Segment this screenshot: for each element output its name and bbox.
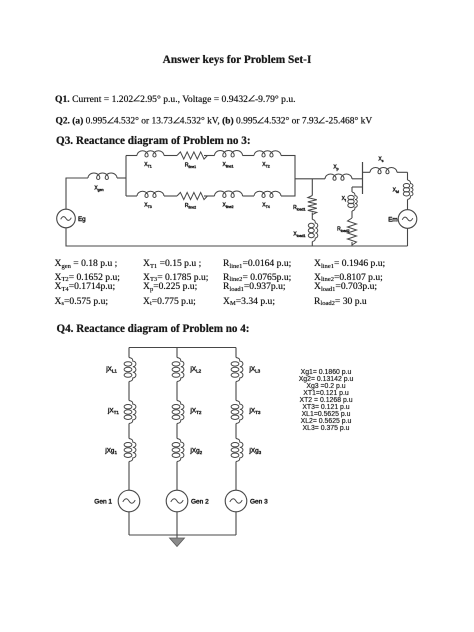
Q2 answer line bbox=[56, 116, 373, 127]
inductor jXT1 bbox=[107, 401, 136, 424]
Q4 reactance values list bbox=[266, 369, 386, 432]
ground stub wire bbox=[176, 535, 178, 539]
wire jXL2 to jXT2 bbox=[176, 382, 178, 401]
svg-text:jXg2: jXg2 bbox=[190, 448, 203, 455]
AC source Gen 1 bbox=[94, 490, 140, 512]
wire jXL1 to jXT1 bbox=[128, 382, 130, 401]
svg-text:jXT1: jXT1 bbox=[107, 408, 119, 415]
svg-text:jXL1: jXL1 bbox=[105, 366, 117, 373]
inductor XM bbox=[393, 180, 413, 200]
wire Xgen to split junction bbox=[117, 177, 126, 179]
inductor XT2 bbox=[254, 151, 281, 169]
svg-text:Gen 1: Gen 1 bbox=[94, 499, 112, 506]
inductor Xp bbox=[325, 165, 352, 181]
svg-text:jXg1: jXg1 bbox=[104, 448, 117, 455]
AC source Gen 2 bbox=[166, 490, 209, 512]
resistor Rload1 bbox=[293, 196, 317, 215]
resistor Rload2 bbox=[337, 218, 356, 245]
inductor Xload1 bbox=[293, 219, 317, 241]
ground symbol bbox=[170, 538, 185, 547]
inductor jXg3 bbox=[231, 439, 262, 462]
resistor Rline1 bbox=[177, 152, 207, 169]
wire Rline2 to Xline2 bbox=[204, 195, 215, 197]
AC source Gen 3 bbox=[225, 490, 268, 512]
wire Gen 2 to bottom bus bbox=[176, 512, 178, 535]
wire jXg1 to Gen 1 bbox=[128, 462, 130, 491]
wire XT4 to right junction bbox=[281, 195, 296, 197]
Q3 values row 4 bbox=[55, 296, 109, 307]
AC source Em bbox=[388, 210, 417, 229]
wire Xs to corner bbox=[397, 171, 408, 173]
wire jXT1 to jXg1 bbox=[128, 424, 130, 439]
svg-text:Gen 2: Gen 2 bbox=[191, 499, 209, 506]
inductor Xt bbox=[342, 192, 358, 211]
Q3 heading bbox=[56, 135, 251, 147]
wire Xload1 to bottom rail bbox=[311, 242, 313, 246]
wire Xline2 to XT4 bbox=[243, 195, 255, 197]
wire Eg to bottom rail bbox=[65, 228, 67, 247]
inductor jXT2 bbox=[172, 401, 202, 424]
inductor jXg2 bbox=[172, 439, 203, 462]
wire Xt to Rload2 bbox=[351, 211, 353, 218]
bus bar node bbox=[362, 162, 364, 194]
wire jXL3 to jXT3 bbox=[235, 382, 237, 401]
wire Rload1 to Xload1 bbox=[311, 213, 313, 220]
wire bus to jXL1 bbox=[128, 348, 130, 358]
wire jXg3 to Gen 3 bbox=[235, 462, 237, 491]
svg-text:Gen 3: Gen 3 bbox=[250, 499, 268, 506]
resistor Rline2 bbox=[177, 192, 207, 209]
Q3 values row 3 bbox=[55, 281, 116, 292]
wire corner down to XM bbox=[407, 172, 409, 180]
wire Em to bottom rail bbox=[407, 228, 409, 246]
wire bus to jXL2 bbox=[176, 348, 178, 358]
wire Rline1 to Xline1 bbox=[204, 155, 215, 157]
AC source Eg bbox=[57, 209, 86, 228]
inductor Xs bbox=[370, 157, 397, 174]
svg-text:jXT3: jXT3 bbox=[249, 408, 261, 415]
wire to Xgen bbox=[66, 177, 89, 179]
svg-text:jXT2: jXT2 bbox=[190, 408, 202, 415]
wire Xline1 to XT2 bbox=[243, 155, 255, 157]
wire Gen 1 to bottom bus bbox=[128, 512, 130, 535]
wire bus to jXL3 bbox=[235, 348, 237, 358]
bottom rail wire bbox=[66, 245, 408, 247]
Q1 answer line bbox=[55, 94, 296, 105]
wire bus to Xt branch bbox=[352, 187, 363, 192]
top bus wire bbox=[129, 347, 236, 349]
inductor jXL3 bbox=[231, 358, 261, 382]
wire to XT1 bbox=[126, 155, 137, 157]
wire to XT3 bbox=[126, 195, 137, 197]
left junction vertical wire bbox=[125, 156, 127, 197]
wire jXT2 to jXg2 bbox=[176, 424, 178, 439]
Q3 values row 1 bbox=[55, 258, 118, 269]
inductor Xline1 bbox=[215, 150, 243, 168]
bottom bus wire bbox=[129, 534, 236, 536]
Q4 heading bbox=[57, 323, 250, 335]
svg-text:jXg3: jXg3 bbox=[249, 448, 262, 455]
inductor jXg1 bbox=[104, 439, 136, 462]
inductor jXT3 bbox=[231, 401, 261, 424]
wire Rload2 to bottom rail bbox=[351, 242, 353, 246]
inductor Xgen bbox=[88, 173, 117, 192]
wire bus to Xs bbox=[363, 171, 371, 173]
wire XM to Em bbox=[407, 200, 409, 210]
wire jXg2 to Gen 2 bbox=[176, 462, 178, 491]
inductor XT4 bbox=[254, 191, 281, 209]
right junction vertical wire bbox=[294, 156, 296, 197]
wire down to Rload1 bbox=[311, 179, 313, 196]
inductor jXL2 bbox=[172, 358, 202, 382]
middle wire to load junction bbox=[295, 178, 325, 180]
wire Gen 3 to bottom bus bbox=[235, 512, 237, 535]
Q3 values row 2 bbox=[55, 272, 120, 283]
svg-text:jXL2: jXL2 bbox=[190, 366, 202, 373]
wire jXT3 to jXg3 bbox=[235, 424, 237, 439]
wire XT1 to Rline1 bbox=[164, 155, 177, 157]
wire XT3 to Rline2 bbox=[164, 195, 177, 197]
wire Xp to bus bbox=[352, 178, 363, 180]
wire Eg to main line bbox=[65, 178, 67, 209]
page title bbox=[0, 54, 474, 66]
svg-text:jXL3: jXL3 bbox=[249, 366, 261, 373]
inductor Xline2 bbox=[215, 191, 243, 209]
wire XT2 to right junction bbox=[281, 155, 296, 157]
inductor XT1 bbox=[137, 151, 164, 169]
inductor XT3 bbox=[137, 191, 164, 209]
inductor jXL1 bbox=[105, 358, 136, 382]
